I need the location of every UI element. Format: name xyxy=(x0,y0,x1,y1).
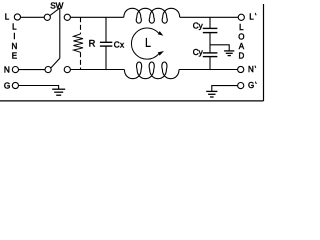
capacitor Cx bottom lead xyxy=(105,46,107,69)
svg-text:Cy: Cy xyxy=(193,48,204,57)
svg-text:L: L xyxy=(5,12,10,21)
switch SW mechanical link xyxy=(59,8,61,58)
capacitor Cy1 xyxy=(203,28,218,32)
ground (load side) xyxy=(206,91,217,97)
inductor choke winding bottom xyxy=(124,62,179,79)
label LINE (vertical) xyxy=(12,22,18,60)
svg-text:D: D xyxy=(239,51,245,60)
figure border (bottom and right) xyxy=(0,100,264,102)
svg-text:O: O xyxy=(238,33,244,42)
capacitor Cy1 top lead xyxy=(209,17,211,28)
terminal G' xyxy=(238,83,244,89)
wire ground to G' terminal xyxy=(212,86,238,92)
svg-text:L: L xyxy=(249,13,254,22)
terminal N' xyxy=(238,66,244,72)
wire G terminal to ground xyxy=(19,86,59,90)
label L (choke inductance) xyxy=(146,38,150,47)
resistor R bottom lead (dashed) xyxy=(80,52,82,69)
capacitor Cx top lead xyxy=(105,17,107,42)
inductor choke winding top xyxy=(124,8,180,23)
switch SW pole 1 contact a xyxy=(44,14,50,20)
wire choke to N' terminal xyxy=(179,69,238,71)
resistor R top lead (dashed) xyxy=(80,17,82,34)
choke core circulation arrow xyxy=(131,28,164,59)
wire switch to choke (L line) xyxy=(70,16,123,18)
switch SW pole 1 blade xyxy=(50,8,60,16)
ground (Cy midpoint) xyxy=(224,51,234,56)
switch SW pole 2 blade xyxy=(51,58,60,68)
wire Cy1 to Cy2 (midpoint) xyxy=(209,33,211,53)
terminal G xyxy=(12,82,18,88)
svg-text:E: E xyxy=(12,52,17,61)
switch SW pole 2 contact a xyxy=(45,67,51,73)
svg-text:SW: SW xyxy=(50,1,63,10)
switch SW pole 1 contact b xyxy=(64,14,70,20)
svg-text:N: N xyxy=(4,64,10,74)
svg-text:L: L xyxy=(239,23,244,32)
svg-text:G: G xyxy=(248,81,254,90)
terminal N xyxy=(12,67,18,73)
svg-text:Cx: Cx xyxy=(114,41,125,50)
label LOAD (vertical) xyxy=(238,23,244,60)
wire N terminal to switch xyxy=(19,69,46,71)
capacitor Cy2 xyxy=(203,53,218,57)
svg-text:N: N xyxy=(12,42,18,51)
wire midpoint to ground branch xyxy=(210,45,229,51)
resistor R xyxy=(74,34,84,52)
svg-text:N: N xyxy=(248,65,254,74)
terminal L xyxy=(14,14,20,20)
switch SW pole 2 contact b xyxy=(64,67,70,73)
svg-text:A: A xyxy=(239,42,245,51)
svg-text:L: L xyxy=(12,22,17,31)
terminal L' xyxy=(238,14,244,20)
svg-text:R: R xyxy=(89,39,96,49)
wire choke to L' terminal xyxy=(180,16,239,18)
capacitor Cx xyxy=(100,42,112,46)
capacitor Cy2 bottom lead xyxy=(209,57,211,70)
svg-text:G: G xyxy=(4,80,10,90)
wire L terminal to switch xyxy=(21,16,44,18)
svg-text:I: I xyxy=(13,32,15,41)
ground (line side) xyxy=(52,89,65,95)
wire switch to choke (N line) xyxy=(70,69,124,71)
svg-text:Cy: Cy xyxy=(193,21,204,30)
